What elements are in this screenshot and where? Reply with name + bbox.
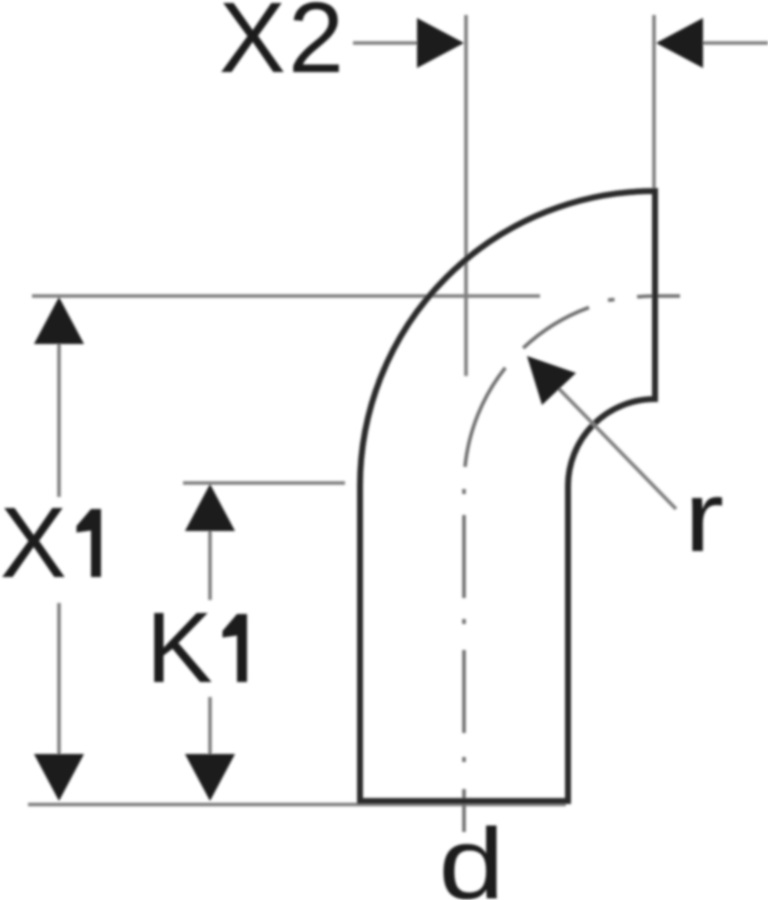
bottom extension line (horizontal) (28, 803, 566, 807)
svg-text:X: X (0, 487, 67, 599)
dimension X1 extension line (top, horizontal) (32, 294, 540, 298)
pipe centerline vertical dot 1 (462, 757, 466, 762)
pipe centerline vertical dot 3 (462, 489, 466, 494)
dimension X2 line left segment (353, 41, 424, 45)
pipe centerline vertical dash 1 (462, 789, 466, 832)
svg-text:r: r (684, 461, 724, 573)
dimension K1 arrow pointing up (185, 484, 235, 531)
pipe centerline vertical dash 3 (462, 515, 466, 598)
dimension K1 line lower segment (208, 697, 212, 798)
dimension X2 arrow pointing left (656, 18, 703, 68)
dimension X1 line lower segment (57, 603, 61, 798)
pipe centerline arc dash 2 (523, 308, 589, 349)
dimension K1 arrow pointing down (185, 754, 235, 801)
dimension X2 extension line (right, vertical) (652, 15, 656, 191)
pipe centerline horizontal dash (637, 294, 680, 298)
radius leader line (530, 359, 676, 509)
svg-text:X2: X2 (219, 0, 346, 94)
dimension X2 extension line (left, vertical) (464, 15, 468, 376)
svg-text:d: d (439, 808, 505, 900)
label X1: digit 1 (no-serif style) (77, 509, 102, 577)
dimension X2 arrow pointing right (417, 18, 464, 68)
dimension X1 arrow pointing down (34, 754, 84, 801)
dimension X1 arrow pointing up (34, 297, 84, 344)
dimension X2 line right segment (700, 41, 768, 45)
label K1: digit 1 (no-serif style) (223, 614, 248, 682)
pipe centerline vertical dash 2 (462, 650, 466, 733)
pipe elbow outline (360, 191, 655, 801)
dimension K1 line upper segment (208, 487, 212, 600)
svg-text:K: K (146, 592, 213, 704)
pipe centerline arc dash 1 (465, 368, 505, 467)
pipe centerline vertical dot 2 (462, 619, 466, 624)
dimension X1 line upper segment (57, 300, 61, 497)
pipe centerline arc dot (608, 298, 615, 302)
dimension K1 extension line (top, horizontal) (183, 481, 345, 485)
radius arrow pointing up-left (527, 356, 576, 405)
